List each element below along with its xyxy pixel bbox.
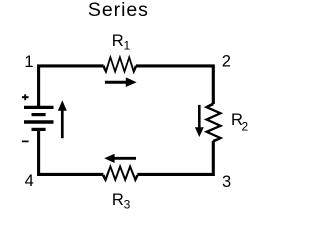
battery B1 plate 3 (long) bbox=[24, 120, 54, 123]
resistor R2 (zigzag on right wire) bbox=[204, 103, 224, 143]
wire: node 4 segment (R3 to corner 4, up to battery -) bbox=[39, 129, 104, 174]
svg-text:3: 3 bbox=[222, 173, 231, 191]
resistor R1 (zigzag on top wire) bbox=[102, 55, 137, 75]
wire: node 1 segment (battery + up to corner 1, across to R1) bbox=[39, 66, 104, 108]
battery B1 plate 2 (short) bbox=[32, 113, 46, 116]
svg-text:2: 2 bbox=[242, 119, 249, 133]
current arrow up (beside battery) bbox=[61, 110, 64, 139]
wire: node 2 segment (R1 to corner 2, down to R2) bbox=[136, 66, 213, 104]
svg-text:1: 1 bbox=[24, 53, 33, 71]
battery + polarity mark bbox=[22, 96, 29, 98]
battery - polarity mark bbox=[22, 140, 29, 142]
current arrow right (under R1) bbox=[105, 81, 128, 84]
svg-text:4: 4 bbox=[25, 172, 34, 190]
current arrow left (above R3) bbox=[114, 157, 137, 160]
svg-text:1: 1 bbox=[124, 39, 131, 53]
battery B1 plate 4 (short, -) bbox=[32, 128, 46, 131]
svg-text:R: R bbox=[112, 32, 124, 50]
current arrow down (left of R2) bbox=[198, 105, 201, 129]
svg-text:R: R bbox=[112, 191, 124, 209]
battery B1 plate 1 (long, +) bbox=[24, 106, 54, 109]
svg-text:3: 3 bbox=[124, 198, 131, 212]
svg-text:2: 2 bbox=[222, 53, 231, 71]
wire: node 3 segment (R2 down to corner 3, across to R3) bbox=[137, 141, 213, 175]
resistor R3 (zigzag on bottom wire) bbox=[102, 164, 139, 183]
svg-text:Series: Series bbox=[88, 0, 149, 21]
